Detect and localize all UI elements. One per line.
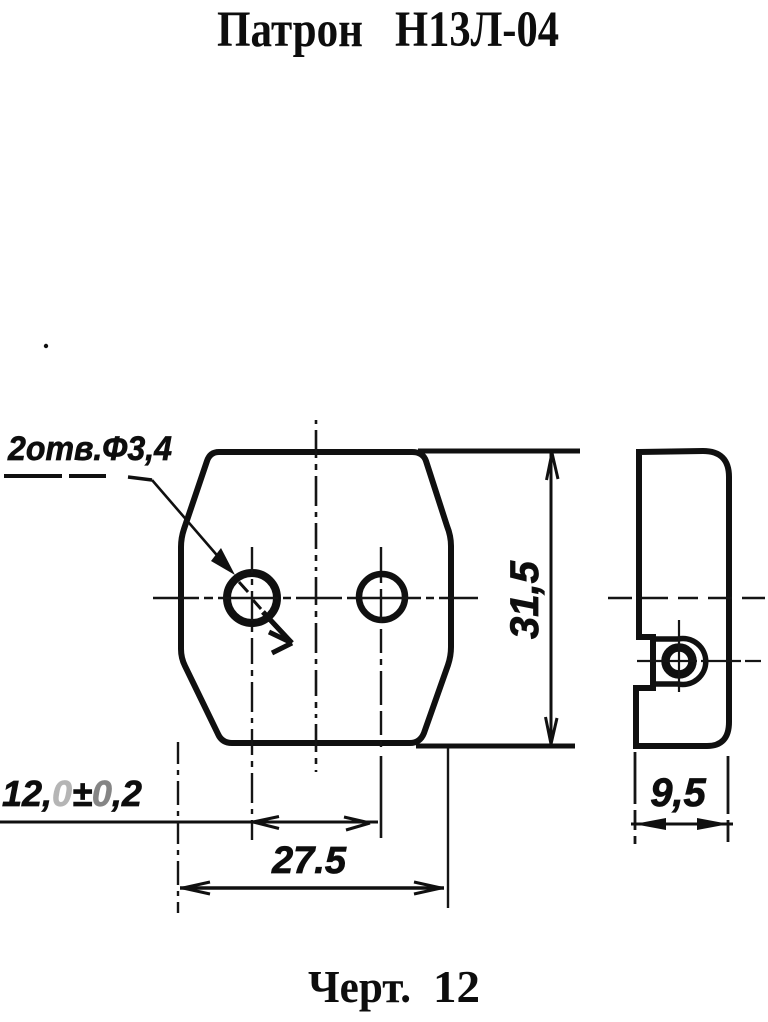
svg-text:Черт.: Черт. <box>308 961 411 1012</box>
svg-text:12,0±0,2: 12,0±0,2 <box>2 773 142 814</box>
svg-text:Патрон: Патрон <box>217 2 363 58</box>
svg-text:2отв.Ф3,4: 2отв.Ф3,4 <box>7 430 172 468</box>
svg-text:27.5: 27.5 <box>271 840 347 882</box>
svg-text:Н13Л-04: Н13Л-04 <box>395 2 559 58</box>
svg-text:9,5: 9,5 <box>650 771 706 815</box>
svg-text:12: 12 <box>433 961 480 1012</box>
svg-text:31,5: 31,5 <box>503 560 547 639</box>
